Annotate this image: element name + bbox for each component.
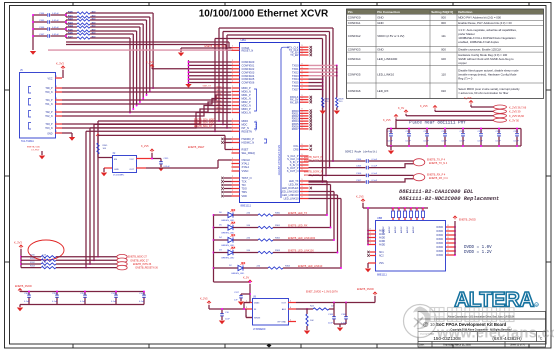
svg-text:K_2V5: K_2V5 bbox=[464, 97, 472, 100]
wire ENETB_CLK (highlighted pink) bbox=[48, 46, 232, 50]
svg-text:9: 9 bbox=[302, 154, 303, 156]
net labels ENETB_SG (red) bbox=[304, 157, 323, 177]
wire LED anode rail bbox=[213, 214, 250, 282]
svg-text:CONFIG5: CONFIG5 bbox=[348, 73, 361, 77]
wire MDI pair segment 1 (top run) bbox=[90, 17, 151, 92]
resistor R331 (AVDD filter) bbox=[398, 207, 401, 220]
svg-text:ENETB_LED_RX: ENETB_LED_RX bbox=[288, 225, 308, 228]
resistor R363 240 (LED series) bbox=[233, 250, 281, 254]
svg-text:VSSC: VSSC bbox=[242, 169, 249, 173]
svg-text:25.000MHz: 25.000MHz bbox=[113, 175, 124, 177]
power flag K_5V (LED rail) bbox=[243, 277, 252, 303]
ground (magjack shield) bbox=[62, 133, 75, 141]
svg-text:XTAL1: XTAL1 bbox=[242, 162, 250, 166]
svg-text:C346: C346 bbox=[139, 293, 145, 295]
svg-text:C343: C343 bbox=[442, 131, 448, 133]
svg-text:8: 8 bbox=[448, 233, 449, 235]
svg-text:DVDD: DVDD bbox=[436, 247, 443, 249]
svg-text:ENETB_INTN 36: ENETB_INTN 36 bbox=[133, 263, 152, 266]
svg-text:CONFIG04: CONFIG04 bbox=[242, 74, 255, 78]
svg-text:CONFIG4: CONFIG4 bbox=[348, 57, 361, 61]
svg-text:8: 8 bbox=[448, 229, 449, 231]
svg-text:ENETB_LED_LINK10: ENETB_LED_LINK10 bbox=[298, 265, 323, 268]
svg-text:DVDD = 1.2V: DVDD = 1.2V bbox=[464, 251, 492, 255]
note: 88E1111 EOL replacement bbox=[399, 189, 499, 202]
svg-text:9: 9 bbox=[302, 186, 303, 188]
svg-text:ENETB_SDA_MDC: ENETB_SDA_MDC bbox=[194, 122, 215, 125]
svg-text:GbE_TX: GbE_TX bbox=[203, 86, 212, 88]
capacitor C347 0.1uF (PHY decoupling) bbox=[478, 128, 484, 147]
svg-text:2: 2 bbox=[232, 187, 233, 189]
capacitor C346 0.1uF (DVDD decoupling) bbox=[139, 291, 146, 305]
svg-text:ADJ: ADJ bbox=[282, 308, 286, 311]
svg-text:9: 9 bbox=[302, 74, 303, 76]
wire MDI pair segment 5 (top run) bbox=[90, 31, 138, 106]
svg-text:AVDD: AVDD bbox=[379, 233, 386, 236]
svg-text:2: 2 bbox=[232, 122, 233, 124]
svg-text:Thursday, March 31, 2016: Thursday, March 31, 2016 bbox=[443, 345, 472, 347]
svg-text:0.1uF: 0.1uF bbox=[111, 301, 117, 303]
svg-text:2: 2 bbox=[232, 97, 233, 99]
annotation ellipse (pullups) bbox=[28, 240, 64, 260]
off-page connector ENETB_MDC bbox=[117, 258, 149, 263]
svg-text:0.01uF: 0.01uF bbox=[52, 27, 59, 29]
svg-text:22uF: 22uF bbox=[328, 322, 333, 324]
svg-text:LED_RX: LED_RX bbox=[377, 89, 388, 93]
capacitor C386 0.1uF (PHY decoupling) bbox=[496, 128, 502, 147]
svg-text:Reg (7) = 0: Reg (7) = 0 bbox=[458, 76, 473, 80]
wire net ENETB_LED_RX bbox=[273, 185, 331, 229]
svg-text:0.01uF: 0.01uF bbox=[52, 13, 59, 15]
svg-text:RESET_N: RESET_N bbox=[242, 48, 254, 52]
svg-text:TXD5: TXD5 bbox=[292, 81, 299, 85]
svg-text:MDIO PHY Address bit (2:0) = 0: MDIO PHY Address bit (2:0) = 000 bbox=[458, 16, 501, 20]
svg-text:9: 9 bbox=[302, 63, 303, 65]
svg-text:EN: EN bbox=[114, 159, 117, 161]
resistor R306 (TXD termination) bbox=[322, 98, 331, 111]
svg-text:TRST_N: TRST_N bbox=[242, 176, 252, 180]
wire bus CONFIG straps to GND node bbox=[188, 60, 232, 83]
svg-text:ENETB_LED_TX: ENETB_LED_TX bbox=[288, 212, 308, 215]
svg-text:GND: GND bbox=[377, 47, 383, 51]
svg-text:AVDD: AVDD bbox=[379, 240, 386, 243]
svg-text:0.1uF: 0.1uF bbox=[460, 141, 466, 143]
wire MDI1_N bbox=[62, 99, 231, 105]
svg-text:www.elecfans.com: www.elecfans.com bbox=[436, 326, 554, 342]
svg-text:0.1uF: 0.1uF bbox=[514, 141, 520, 143]
capacitor C347 0.01uF (CT bypass) bbox=[32, 34, 66, 38]
capacitor C390 0.1uF (PHY decoupling) bbox=[460, 128, 466, 147]
svg-text:TDO: TDO bbox=[242, 187, 247, 191]
svg-text:1: 1 bbox=[56, 110, 57, 112]
svg-text:2: 2 bbox=[232, 158, 233, 160]
LED D5 GREEN_LED bbox=[214, 222, 235, 234]
svg-text:LT3080EDD: LT3080EDD bbox=[253, 329, 266, 331]
svg-text:LED_LINK10: LED_LINK10 bbox=[377, 73, 394, 77]
svg-text:CONFIG00: CONFIG00 bbox=[242, 60, 255, 64]
wire RSET reference bbox=[98, 135, 232, 149]
svg-text:TA1-TGB1A: TA1-TGB1A bbox=[21, 140, 34, 143]
svg-text:ENETB_LED_LINK1000: ENETB_LED_LINK1000 bbox=[288, 237, 316, 240]
svg-text:CONFIG1: CONFIG1 bbox=[348, 21, 361, 25]
svg-text:GREEN_LED: GREEN_LED bbox=[221, 220, 235, 222]
off-page power connectors (right) bbox=[494, 105, 527, 123]
wire COMA bbox=[66, 42, 232, 48]
svg-text:9: 9 bbox=[302, 77, 303, 79]
svg-text:0.1uF: 0.1uF bbox=[139, 301, 145, 303]
svg-text:Place near 88E1111 PHY: Place near 88E1111 PHY bbox=[409, 120, 466, 125]
svg-text:100: 100 bbox=[441, 57, 446, 61]
svg-text:TCK: TCK bbox=[242, 180, 247, 184]
svg-text:8: 8 bbox=[448, 249, 449, 251]
svg-text:9: 9 bbox=[302, 100, 303, 102]
resistor R335 (AVDD filter) bbox=[422, 207, 425, 220]
capacitor C346 0.01uF (CT bypass) bbox=[32, 27, 66, 31]
svg-text:C358: C358 bbox=[52, 293, 58, 295]
svg-text:0.1uF: 0.1uF bbox=[424, 141, 430, 143]
svg-text:VSS: VSS bbox=[379, 263, 384, 265]
wire MDI pair segment 3 (top run) bbox=[90, 24, 144, 99]
svg-text:88E1111: 88E1111 bbox=[377, 272, 387, 276]
ground (R308) bbox=[334, 111, 340, 115]
svg-text:110: 110 bbox=[441, 73, 446, 77]
svg-text:9: 9 bbox=[302, 166, 303, 168]
capacitor C305 0.1uF (SGMII AC coupling) bbox=[309, 165, 378, 169]
svg-text:10uF: 10uF bbox=[225, 319, 230, 321]
svg-text:5: 5 bbox=[290, 301, 291, 303]
wire MDI pair segment 4 (top run) bbox=[90, 27, 141, 103]
svg-text:9: 9 bbox=[302, 148, 303, 150]
svg-text:DVDD = 1.0V: DVDD = 1.0V bbox=[464, 246, 492, 250]
svg-text:2: 2 bbox=[232, 107, 233, 109]
wire MDIO-group 1 down to pull resistors bbox=[93, 124, 231, 261]
svg-text:TD0_N: TD0_N bbox=[45, 92, 53, 94]
svg-text:MDI3_P: MDI3_P bbox=[242, 107, 252, 111]
svg-text:3: 3 bbox=[370, 232, 371, 234]
svg-text:C304: C304 bbox=[356, 159, 362, 161]
svg-text:Twisted Ch: Twisted Ch bbox=[255, 120, 258, 132]
resistor R322 49.9 (series termination) bbox=[65, 17, 96, 24]
oscillator X2 25MHz bbox=[98, 153, 152, 177]
svg-text:C311: C311 bbox=[424, 131, 430, 133]
svg-text:SGMII Mode (default): SGMII Mode (default) bbox=[345, 149, 378, 153]
svg-text:HSDMC_P: HSDMC_P bbox=[242, 137, 255, 141]
svg-text:ENETB_MDC 27: ENETB_MDC 27 bbox=[131, 259, 150, 262]
svg-text:0.1uF: 0.1uF bbox=[388, 141, 394, 143]
svg-text:C346: C346 bbox=[39, 27, 45, 29]
ground (CONFIG straps) bbox=[185, 83, 191, 88]
svg-text:MDI0_N: MDI0_N bbox=[242, 90, 252, 94]
off-page connector ENETB_INTN bbox=[117, 262, 152, 267]
svg-text:0.01uF: 0.01uF bbox=[52, 34, 59, 36]
wire DVDD cap ground rail bbox=[20, 305, 144, 308]
svg-text:TD1_N: TD1_N bbox=[45, 104, 53, 106]
svg-text:LED_DUPLEX: LED_DUPLEX bbox=[282, 186, 299, 190]
power flag ENETB_DVDD (reg out) bbox=[357, 288, 377, 302]
svg-text:TXD0: TXD0 bbox=[292, 64, 299, 68]
wire MDIO-group 3 down to pull resistors bbox=[85, 131, 231, 268]
svg-text:C186: C186 bbox=[341, 314, 347, 316]
wire stubs JTAG pins (U8A left) bbox=[221, 138, 231, 197]
svg-text:ENETB_DVDD: ENETB_DVDD bbox=[357, 288, 374, 291]
svg-text:INT_N: INT_N bbox=[242, 126, 250, 130]
svg-text:10/100/1000 Ethernet XCVR: 10/100/1000 Ethernet XCVR bbox=[199, 9, 329, 20]
svg-text:NC2: NC2 bbox=[379, 256, 384, 258]
table: CONFIG pin strap settings bbox=[347, 9, 544, 99]
wire MDI pair segment 0 (top run) bbox=[90, 13, 154, 89]
svg-text:8: 8 bbox=[448, 253, 449, 255]
ground (DVDD caps) bbox=[17, 308, 23, 312]
wire MDIO-group 2 down to pull resistors bbox=[89, 128, 231, 265]
capacitor C358 0.1uF (DVDD decoupling) bbox=[52, 291, 59, 305]
svg-text:1: 1 bbox=[56, 86, 57, 88]
svg-text:ENETB_TX_P 4: ENETB_TX_P 4 bbox=[427, 159, 446, 162]
svg-text:R363: R363 bbox=[275, 250, 281, 252]
svg-text:C345: C345 bbox=[39, 20, 45, 22]
resistor R321 49.9 (series termination) bbox=[66, 14, 96, 18]
svg-text:9: 9 bbox=[302, 70, 303, 72]
connector/transformer J5 RJ45 magjack bbox=[20, 68, 63, 143]
svg-text:2: 2 bbox=[232, 104, 233, 106]
resistor R20 10K (ADJ divider) bbox=[306, 309, 314, 330]
svg-text:RXD7: RXD7 bbox=[292, 127, 299, 131]
svg-text:VCC: VCC bbox=[47, 77, 52, 80]
capacitor C364 0.1uF (DVDD decoupling) bbox=[24, 291, 31, 305]
svg-text:R360: R360 bbox=[275, 212, 281, 214]
svg-text:9: 9 bbox=[302, 87, 303, 89]
ground (C355) bbox=[158, 168, 164, 172]
svg-text:C305: C305 bbox=[356, 165, 362, 167]
power flag K_2V5 (reg aux) bbox=[200, 298, 252, 318]
svg-text:2: 2 bbox=[232, 180, 233, 182]
off-page connector ENETB_RX pair bbox=[413, 174, 448, 181]
svg-text:LED_TX: LED_TX bbox=[289, 179, 299, 183]
resistor R334 (AVDD filter) bbox=[416, 207, 419, 220]
LED D4 GREEN_LED bbox=[214, 235, 235, 247]
ground (C317) bbox=[238, 302, 244, 306]
svg-text:0.1uF: 0.1uF bbox=[496, 141, 502, 143]
svg-text:3: 3 bbox=[370, 236, 371, 238]
svg-text:1: 1 bbox=[56, 122, 57, 124]
wire bracket bus 2 bbox=[226, 35, 327, 176]
power flag K_2V5 (oscillator VCC) bbox=[141, 145, 161, 159]
svg-text:enabled, 100BASE-X half duplex: enabled, 100BASE-X half duplex bbox=[458, 40, 499, 44]
power flag K_2V5 (PHY rail 4) bbox=[383, 115, 494, 129]
svg-text:9: 9 bbox=[302, 160, 303, 162]
svg-text:TDI: TDI bbox=[242, 183, 246, 187]
svg-text:1: 1 bbox=[56, 76, 57, 78]
svg-text:Enable Pause, PHY Address bits: Enable Pause, PHY Address bits (4:3) = 0… bbox=[458, 21, 512, 25]
svg-text:AVDD: AVDD bbox=[379, 230, 386, 233]
svg-text:2: 2 bbox=[232, 129, 233, 131]
svg-text:2: 2 bbox=[232, 151, 233, 153]
resistor R310 1.0K (pullup) bbox=[21, 255, 117, 258]
wire bus TXD4-7 bbox=[309, 76, 324, 98]
svg-text:9: 9 bbox=[302, 190, 303, 192]
ground (magjack CT) bbox=[39, 156, 45, 160]
svg-text:9: 9 bbox=[302, 144, 303, 146]
capacitor C389 0.1uF (PHY decoupling) bbox=[406, 128, 412, 147]
svg-text:2: 2 bbox=[290, 320, 291, 322]
svg-text:MDI2_P: MDI2_P bbox=[242, 100, 252, 104]
resistor R362 240 (LED series) bbox=[233, 237, 281, 241]
svg-text:88E1111: 88E1111 bbox=[241, 204, 252, 208]
wire net ENETB_LED_TX bbox=[273, 181, 328, 216]
svg-text:S_OUT_N: S_OUT_N bbox=[287, 169, 299, 173]
note DVDD voltages bbox=[464, 246, 492, 255]
svg-text:9: 9 bbox=[302, 193, 303, 195]
svg-text:2: 2 bbox=[232, 190, 233, 192]
wire MDI0_P bbox=[62, 87, 231, 89]
resistor R24 (ADJ) bbox=[296, 306, 335, 311]
capacitor C355 0.01uF (osc bypass) bbox=[159, 158, 170, 168]
net labels MDI0..MDI3 (red) bbox=[203, 86, 225, 113]
IC U8B 88E1111 power pins bbox=[367, 216, 456, 276]
svg-text:9: 9 bbox=[302, 183, 303, 185]
svg-text:ENETB_SGRX_P: ENETB_SGRX_P bbox=[304, 172, 323, 174]
capacitor C10 10uF (reg input) bbox=[220, 308, 230, 321]
svg-text:VDDO (2.5V or 3.3V): VDDO (2.5V or 3.3V) bbox=[377, 34, 404, 38]
svg-text:9: 9 bbox=[302, 67, 303, 69]
svg-text:TD2_P: TD2_P bbox=[45, 112, 53, 114]
resistor R320 49.9 (series termination) bbox=[65, 10, 96, 17]
svg-text:DVDD: DVDD bbox=[436, 227, 443, 229]
svg-text:0.1uF: 0.1uF bbox=[478, 141, 484, 143]
resistor R364 240 (LED series) bbox=[243, 265, 291, 269]
wire power rail (cap bank) bbox=[387, 129, 521, 147]
svg-text:K_3V: K_3V bbox=[398, 107, 404, 110]
capacitor C186 2.2uF (reg out) bbox=[341, 303, 348, 325]
net label below magjack bbox=[27, 146, 42, 155]
svg-text:AVDDC: AVDDC bbox=[388, 226, 391, 233]
svg-text:CT_FILT: CT_FILT bbox=[31, 150, 40, 152]
svg-text:= active low, 60 ohm terminati: = active low, 60 ohm termination for fib… bbox=[458, 91, 508, 95]
capacitor C354 0.1uF (DVDD decoupling) bbox=[80, 291, 87, 305]
ground (oscillator) bbox=[101, 168, 107, 176]
wire RESET_N bbox=[66, 45, 232, 51]
svg-text:ENETB_DVDD: ENETB_DVDD bbox=[15, 285, 32, 288]
power flag ENETB_DVDD (U8B) bbox=[453, 216, 476, 221]
svg-text:TD3_P: TD3_P bbox=[45, 124, 53, 126]
svg-text:2: 2 bbox=[232, 194, 233, 196]
wire MDI pair segment 2 (top run) bbox=[90, 20, 147, 96]
ground (C10) bbox=[219, 321, 225, 325]
capacitor C311 0.1uF (PHY decoupling) bbox=[424, 128, 430, 147]
svg-text:C347: C347 bbox=[478, 131, 484, 133]
svg-text:000: 000 bbox=[441, 47, 446, 51]
svg-text:GIGABIT ETHERNET XCVR: GIGABIT ETHERNET XCVR bbox=[278, 144, 281, 175]
svg-text:0.1uF: 0.1uF bbox=[52, 301, 58, 303]
svg-text:K_2V5: K_2V5 bbox=[200, 298, 208, 301]
capacitor C344 0.01uF (CT bypass) bbox=[32, 13, 66, 17]
svg-text:C390: C390 bbox=[460, 131, 466, 133]
wire SGMII TX pair to connector bbox=[369, 161, 413, 168]
wire MDI3_P bbox=[62, 109, 231, 124]
svg-text:MDI3_N: MDI3_N bbox=[242, 111, 252, 115]
wire ENET_DVDD output bbox=[296, 291, 375, 310]
svg-text:MDI0_P: MDI0_P bbox=[242, 86, 252, 90]
svg-text:MDC: MDC bbox=[242, 123, 248, 127]
svg-text:4: 4 bbox=[290, 307, 291, 309]
svg-text:2: 2 bbox=[232, 100, 233, 102]
svg-text:NC1: NC1 bbox=[379, 252, 384, 254]
svg-text:EP GND: EP GND bbox=[278, 322, 287, 324]
svg-text:3: 3 bbox=[370, 229, 371, 231]
ground (top-left coupling network) bbox=[30, 51, 36, 55]
resistor R312 4.7K (pullup) bbox=[21, 262, 117, 265]
svg-text:GREEN_LED: GREEN_LED bbox=[231, 273, 245, 275]
resistor R333 (AVDD filter) bbox=[410, 207, 413, 220]
svg-text:2: 2 bbox=[232, 60, 233, 62]
wire net ENETB_LED_LINK100 bbox=[273, 195, 338, 253]
power flag K_2V5 (U8B AVDD) bbox=[356, 196, 428, 208]
svg-text:8: 8 bbox=[448, 225, 449, 227]
power flag K_2V5 (PHY rail 2) bbox=[420, 105, 494, 111]
svg-text:3: 3 bbox=[370, 239, 371, 241]
svg-text:2: 2 bbox=[232, 70, 233, 72]
svg-text:2: 2 bbox=[232, 165, 233, 167]
resistor R327 49.9 (series termination) bbox=[66, 35, 96, 39]
svg-text:VCC: VCC bbox=[129, 159, 134, 161]
svg-text:GND: GND bbox=[377, 16, 383, 20]
svg-text:GREEN_LED: GREEN_LED bbox=[221, 232, 235, 234]
svg-text:Pin Connection: Pin Connection bbox=[377, 10, 400, 14]
svg-text:OUT: OUT bbox=[281, 303, 286, 305]
net label ENETB_DVDD rail bbox=[15, 285, 144, 292]
svg-text:1: 1 bbox=[56, 114, 57, 116]
capacitor C317 1uF (reg input) bbox=[234, 292, 250, 301]
svg-text:ENET_DVDD = 1.0V/0.287A: ENET_DVDD = 1.0V/0.287A bbox=[306, 291, 338, 294]
resistor R313 4.7K (pullup) bbox=[21, 265, 117, 268]
svg-text:K_3V3: K_3V3 bbox=[14, 241, 22, 245]
capacitor C188 22uF (reg out) bbox=[328, 303, 336, 325]
svg-text:COL: COL bbox=[293, 144, 299, 148]
svg-text:9: 9 bbox=[302, 50, 303, 52]
capacitor C345 0.01uF (CT bypass) bbox=[32, 20, 66, 24]
svg-text:TD0_P: TD0_P bbox=[45, 88, 53, 90]
ground (cap bank) bbox=[388, 146, 394, 154]
wire MDI0_N bbox=[62, 91, 231, 93]
svg-text:ENETB_TX/RX_CLK: ENETB_TX/RX_CLK bbox=[205, 46, 227, 48]
svg-text:CONFIG03: CONFIG03 bbox=[242, 70, 255, 74]
title block bbox=[418, 312, 546, 348]
wire MDI2_N bbox=[62, 106, 231, 117]
watermark: elecfans logo and text bbox=[404, 305, 554, 342]
svg-text:C386: C386 bbox=[496, 131, 502, 133]
svg-text:HSDMC_N: HSDMC_N bbox=[242, 141, 255, 145]
svg-text:1: 1 bbox=[56, 98, 57, 100]
svg-text:ENETB_DVDD: ENETB_DVDD bbox=[459, 218, 476, 221]
capacitor C343 0.1uF (PHY decoupling) bbox=[442, 128, 448, 147]
svg-text:R362: R362 bbox=[275, 237, 281, 239]
logo ALTERA bbox=[454, 289, 538, 312]
svg-text:K_2V5: K_2V5 bbox=[146, 60, 154, 64]
svg-text:9: 9 bbox=[302, 81, 303, 83]
power flag K_2V5 (CONFIG2 VDDO) bbox=[146, 60, 189, 69]
wire MDI2_P bbox=[62, 102, 231, 112]
svg-text:RESETN: RESETN bbox=[242, 129, 252, 133]
svg-text:U8B: U8B bbox=[377, 216, 382, 220]
op IC U8A 88E1111 Gigabit Ethernet PHY bbox=[232, 38, 309, 207]
svg-text:2: 2 bbox=[232, 111, 233, 113]
svg-text:AVDDC: AVDDC bbox=[394, 226, 397, 233]
wire MDI1_P bbox=[62, 95, 231, 100]
svg-text:LED_LINK100: LED_LINK100 bbox=[282, 193, 299, 197]
LED D3 GREEN_LED bbox=[214, 247, 235, 259]
wire MDI pair segment 6 (top run) bbox=[90, 34, 134, 110]
off-page connector ENETB_RESETN bbox=[117, 265, 159, 270]
svg-text:9: 9 bbox=[302, 197, 303, 199]
